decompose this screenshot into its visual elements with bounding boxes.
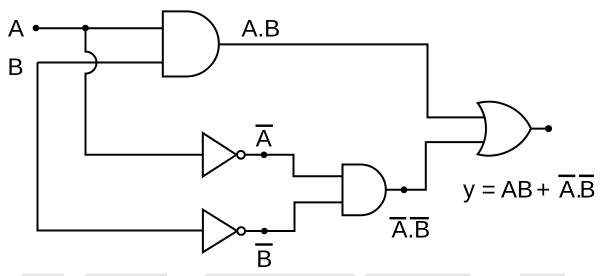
wire node A-bar: NOT U2 output to AND U4 pin 1: [245, 155, 346, 176]
svg-text:B: B: [8, 54, 24, 81]
svg-text:B: B: [256, 246, 272, 273]
svg-text:+: +: [536, 177, 550, 204]
wire node A.B: AND U1 output to OR U5 pin 1: [219, 44, 484, 117]
node dot: output y terminal: [545, 125, 552, 132]
svg-text:y = AB: y = AB: [463, 177, 533, 204]
NOT gate U3 bubble: [237, 227, 245, 235]
svg-text:A.B: A.B: [242, 16, 281, 43]
wire A input to AND gate U1 pin 1: [36, 27, 166, 29]
svg-text:A: A: [8, 16, 24, 43]
overline of A-bar in A-bar.B-bar: [390, 217, 407, 219]
svg-text:A.B: A.B: [392, 216, 431, 243]
NOT gate U2: [203, 133, 237, 177]
wire A branch down to NOT U2 (with hop over B wire): [86, 28, 207, 155]
AND gate U1: [163, 11, 219, 76]
wire node B-bar: NOT U3 output to AND U4 pin 2: [245, 202, 346, 231]
overline of A-bar: [256, 125, 274, 127]
node dot: A-bar.B-bar net: [401, 186, 408, 193]
overline of B-bar in A-bar.B-bar: [410, 217, 429, 219]
wire node A-bar.B-bar: AND U4 output to OR U5 pin 2: [386, 142, 484, 190]
NOT gate U2 bubble: [237, 151, 245, 159]
overline of B-bar in equation: [579, 175, 594, 178]
wire OR U5 output y: [531, 128, 553, 130]
svg-text:A: A: [559, 177, 575, 204]
overline of B-bar: [255, 243, 273, 245]
svg-text:B: B: [580, 177, 596, 204]
node dot: input A terminal: [33, 25, 40, 32]
svg-text:A: A: [256, 126, 272, 153]
NOT gate U3: [203, 210, 237, 253]
wire B input to AND gate U1 pin 2: [38, 62, 167, 64]
OR gate U5: [478, 102, 531, 156]
node dot: B-bar net: [261, 228, 268, 235]
AND gate U4: [343, 165, 386, 216]
node dot: A-bar net: [261, 152, 268, 159]
wire B branch down to NOT U3: [38, 62, 207, 230]
node dot: junction of A wire and branch: [82, 25, 89, 32]
overline of A-bar in equation: [558, 175, 575, 178]
faint cut-off caption text at bottom edge: [22, 274, 64, 276]
